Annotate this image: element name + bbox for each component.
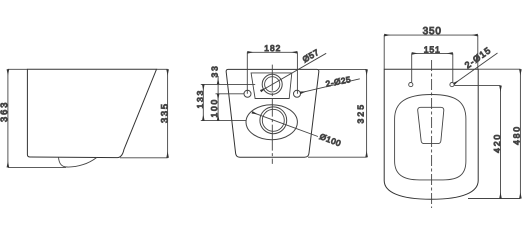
- extension line outlet center: [201, 120, 246, 122]
- dim 480 extension bottom: [468, 198, 520, 200]
- inlet hole outer circle: [262, 74, 282, 94]
- dim 480 line: [519, 69, 521, 198]
- dim 33 line: [217, 76, 219, 84]
- dim 363 line: [7, 69, 9, 167]
- top view inner rim: [395, 94, 466, 179]
- outlet circle inner: [262, 109, 284, 131]
- inlet hole inner circle: [265, 77, 280, 92]
- dim 363 extension bottom: [8, 166, 66, 168]
- dim chain segment: [217, 84, 219, 93]
- leader diameter 100: [252, 112, 318, 136]
- svg-text:133: 133: [195, 89, 205, 109]
- dim 335 extension bottom: [120, 157, 168, 159]
- back view outline: [226, 69, 319, 157]
- dim 480 extension top: [478, 68, 520, 70]
- extension line holes center: [216, 93, 245, 95]
- dim 151 extension right: [452, 53, 454, 82]
- outlet circle outer: [260, 107, 287, 134]
- side view outlet bump: [59, 157, 97, 167]
- dim 335 extension top: [157, 68, 168, 70]
- top view outline: [384, 69, 478, 199]
- dim 182 line: [247, 51, 297, 53]
- dim 350 extension left: [383, 35, 385, 69]
- dim 100 line: [217, 94, 219, 121]
- outlet outer ellipse: [246, 105, 297, 140]
- left fixing hole: [244, 90, 251, 97]
- back view inlet boss: [251, 73, 292, 99]
- dim 151 extension left: [411, 53, 413, 82]
- dim 420 line: [500, 86, 502, 199]
- top view right fixing hole: [450, 83, 454, 87]
- top view water area: [418, 107, 444, 143]
- extension line inlet center: [201, 83, 255, 85]
- dim 182 extension left: [246, 52, 248, 94]
- svg-text:151: 151: [424, 45, 441, 55]
- svg-text:350: 350: [423, 26, 442, 37]
- svg-text:Ø100: Ø100: [318, 132, 342, 148]
- dim 350 extension right: [477, 35, 479, 69]
- svg-text:2-Ø25: 2-Ø25: [325, 75, 352, 89]
- dim 151 line: [412, 52, 453, 54]
- dim 363 extension top: [8, 68, 28, 70]
- svg-text:100: 100: [209, 98, 219, 118]
- back view centerline: [271, 65, 273, 164]
- dim 335 line: [167, 69, 169, 158]
- dim 325 extension bottom: [308, 156, 367, 158]
- dim 325 line: [366, 69, 368, 157]
- side view outline: [27, 69, 156, 157]
- svg-text:480: 480: [512, 125, 522, 145]
- leader 2-d25: [300, 79, 360, 93]
- dim 182 extension right: [296, 52, 298, 94]
- leader diameter 57: [261, 53, 327, 91]
- leader 2-d15: [454, 53, 498, 84]
- svg-text:325: 325: [355, 103, 365, 124]
- right fixing hole: [294, 90, 301, 97]
- dim 350 line: [384, 34, 478, 36]
- svg-text:182: 182: [264, 43, 281, 53]
- svg-text:363: 363: [0, 101, 9, 122]
- dim 420 extension top: [455, 85, 501, 87]
- dim 325 extension top: [319, 68, 367, 70]
- dim 133 line: [202, 84, 204, 120]
- top view left fixing hole: [409, 83, 413, 87]
- svg-text:420: 420: [492, 133, 502, 153]
- svg-text:33: 33: [210, 64, 220, 77]
- svg-text:335: 335: [159, 102, 169, 123]
- top view centerline: [431, 60, 433, 208]
